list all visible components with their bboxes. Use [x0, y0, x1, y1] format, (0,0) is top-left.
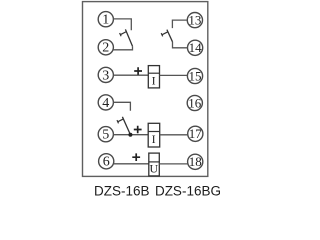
- svg-text:U: U: [149, 161, 158, 175]
- terminal 17: [188, 126, 203, 141]
- svg-text:DZS-16B DZS-16BG: DZS-16B DZS-16BG: [94, 183, 221, 198]
- svg-text:5: 5: [102, 128, 109, 143]
- contact K1 tick serif: [120, 33, 122, 36]
- wire terminal 14 to contact K2: [173, 42, 188, 48]
- svg-text:4: 4: [102, 96, 109, 111]
- terminal 16: [187, 95, 202, 110]
- wire terminal 1 to contact K1: [113, 19, 131, 30]
- wire coil U to terminal 18: [159, 163, 187, 165]
- svg-text:6: 6: [103, 155, 110, 170]
- polarity plus row 6: [132, 153, 140, 161]
- terminal 15: [187, 68, 202, 83]
- terminal 6: [99, 154, 114, 170]
- wire terminal 2 to contact K1: [113, 46, 132, 50]
- terminal 14: [188, 40, 203, 55]
- svg-text:I: I: [152, 132, 156, 146]
- svg-text:16: 16: [188, 95, 202, 110]
- terminal 1: [98, 12, 113, 28]
- svg-text:15: 15: [189, 68, 202, 83]
- terminal 18: [188, 154, 203, 169]
- wire coil I to terminal 17: [160, 134, 188, 136]
- wire terminal 4 to contact K3: [113, 102, 130, 111]
- contact K1 tick: [120, 32, 126, 35]
- wire terminal 5 to coil I: [113, 134, 148, 136]
- junction node (5 / K3): [128, 133, 132, 137]
- polarity plus row 3: [134, 67, 142, 75]
- terminal 3: [98, 67, 113, 83]
- svg-text:17: 17: [189, 126, 203, 141]
- contact K3 blade (4-5): [122, 117, 130, 135]
- wire terminal 6 to coil U: [114, 163, 149, 165]
- wire terminal 13 to contact K2: [172, 20, 187, 28]
- polarity plus row 5: [134, 126, 142, 134]
- contact K3 tick: [118, 119, 124, 122]
- terminal 4: [98, 95, 113, 111]
- contact K1 blade (1-2): [125, 29, 132, 46]
- voltage coil U (6-18): [149, 153, 160, 176]
- contact K2 tick: [162, 32, 168, 35]
- wire terminal 3 to coil I: [113, 74, 148, 76]
- contact K2 tick serif: [161, 33, 163, 36]
- contact K3 tick serif: [117, 120, 119, 123]
- svg-text:18: 18: [189, 154, 202, 169]
- wire coil I to terminal 15: [160, 74, 188, 76]
- svg-text:14: 14: [189, 40, 203, 55]
- svg-text:2: 2: [102, 41, 109, 56]
- contact K2 blade (13-14): [167, 30, 173, 42]
- svg-text:13: 13: [188, 13, 201, 28]
- terminal 2: [98, 40, 113, 56]
- relay outline frame: [83, 2, 208, 177]
- svg-text:3: 3: [102, 68, 109, 83]
- current coil I (3-15): [148, 66, 159, 88]
- svg-text:1: 1: [102, 13, 109, 28]
- svg-text:I: I: [152, 73, 156, 87]
- current coil I (5-17): [148, 123, 160, 147]
- terminal 5: [98, 127, 113, 143]
- terminal 13: [187, 13, 202, 28]
